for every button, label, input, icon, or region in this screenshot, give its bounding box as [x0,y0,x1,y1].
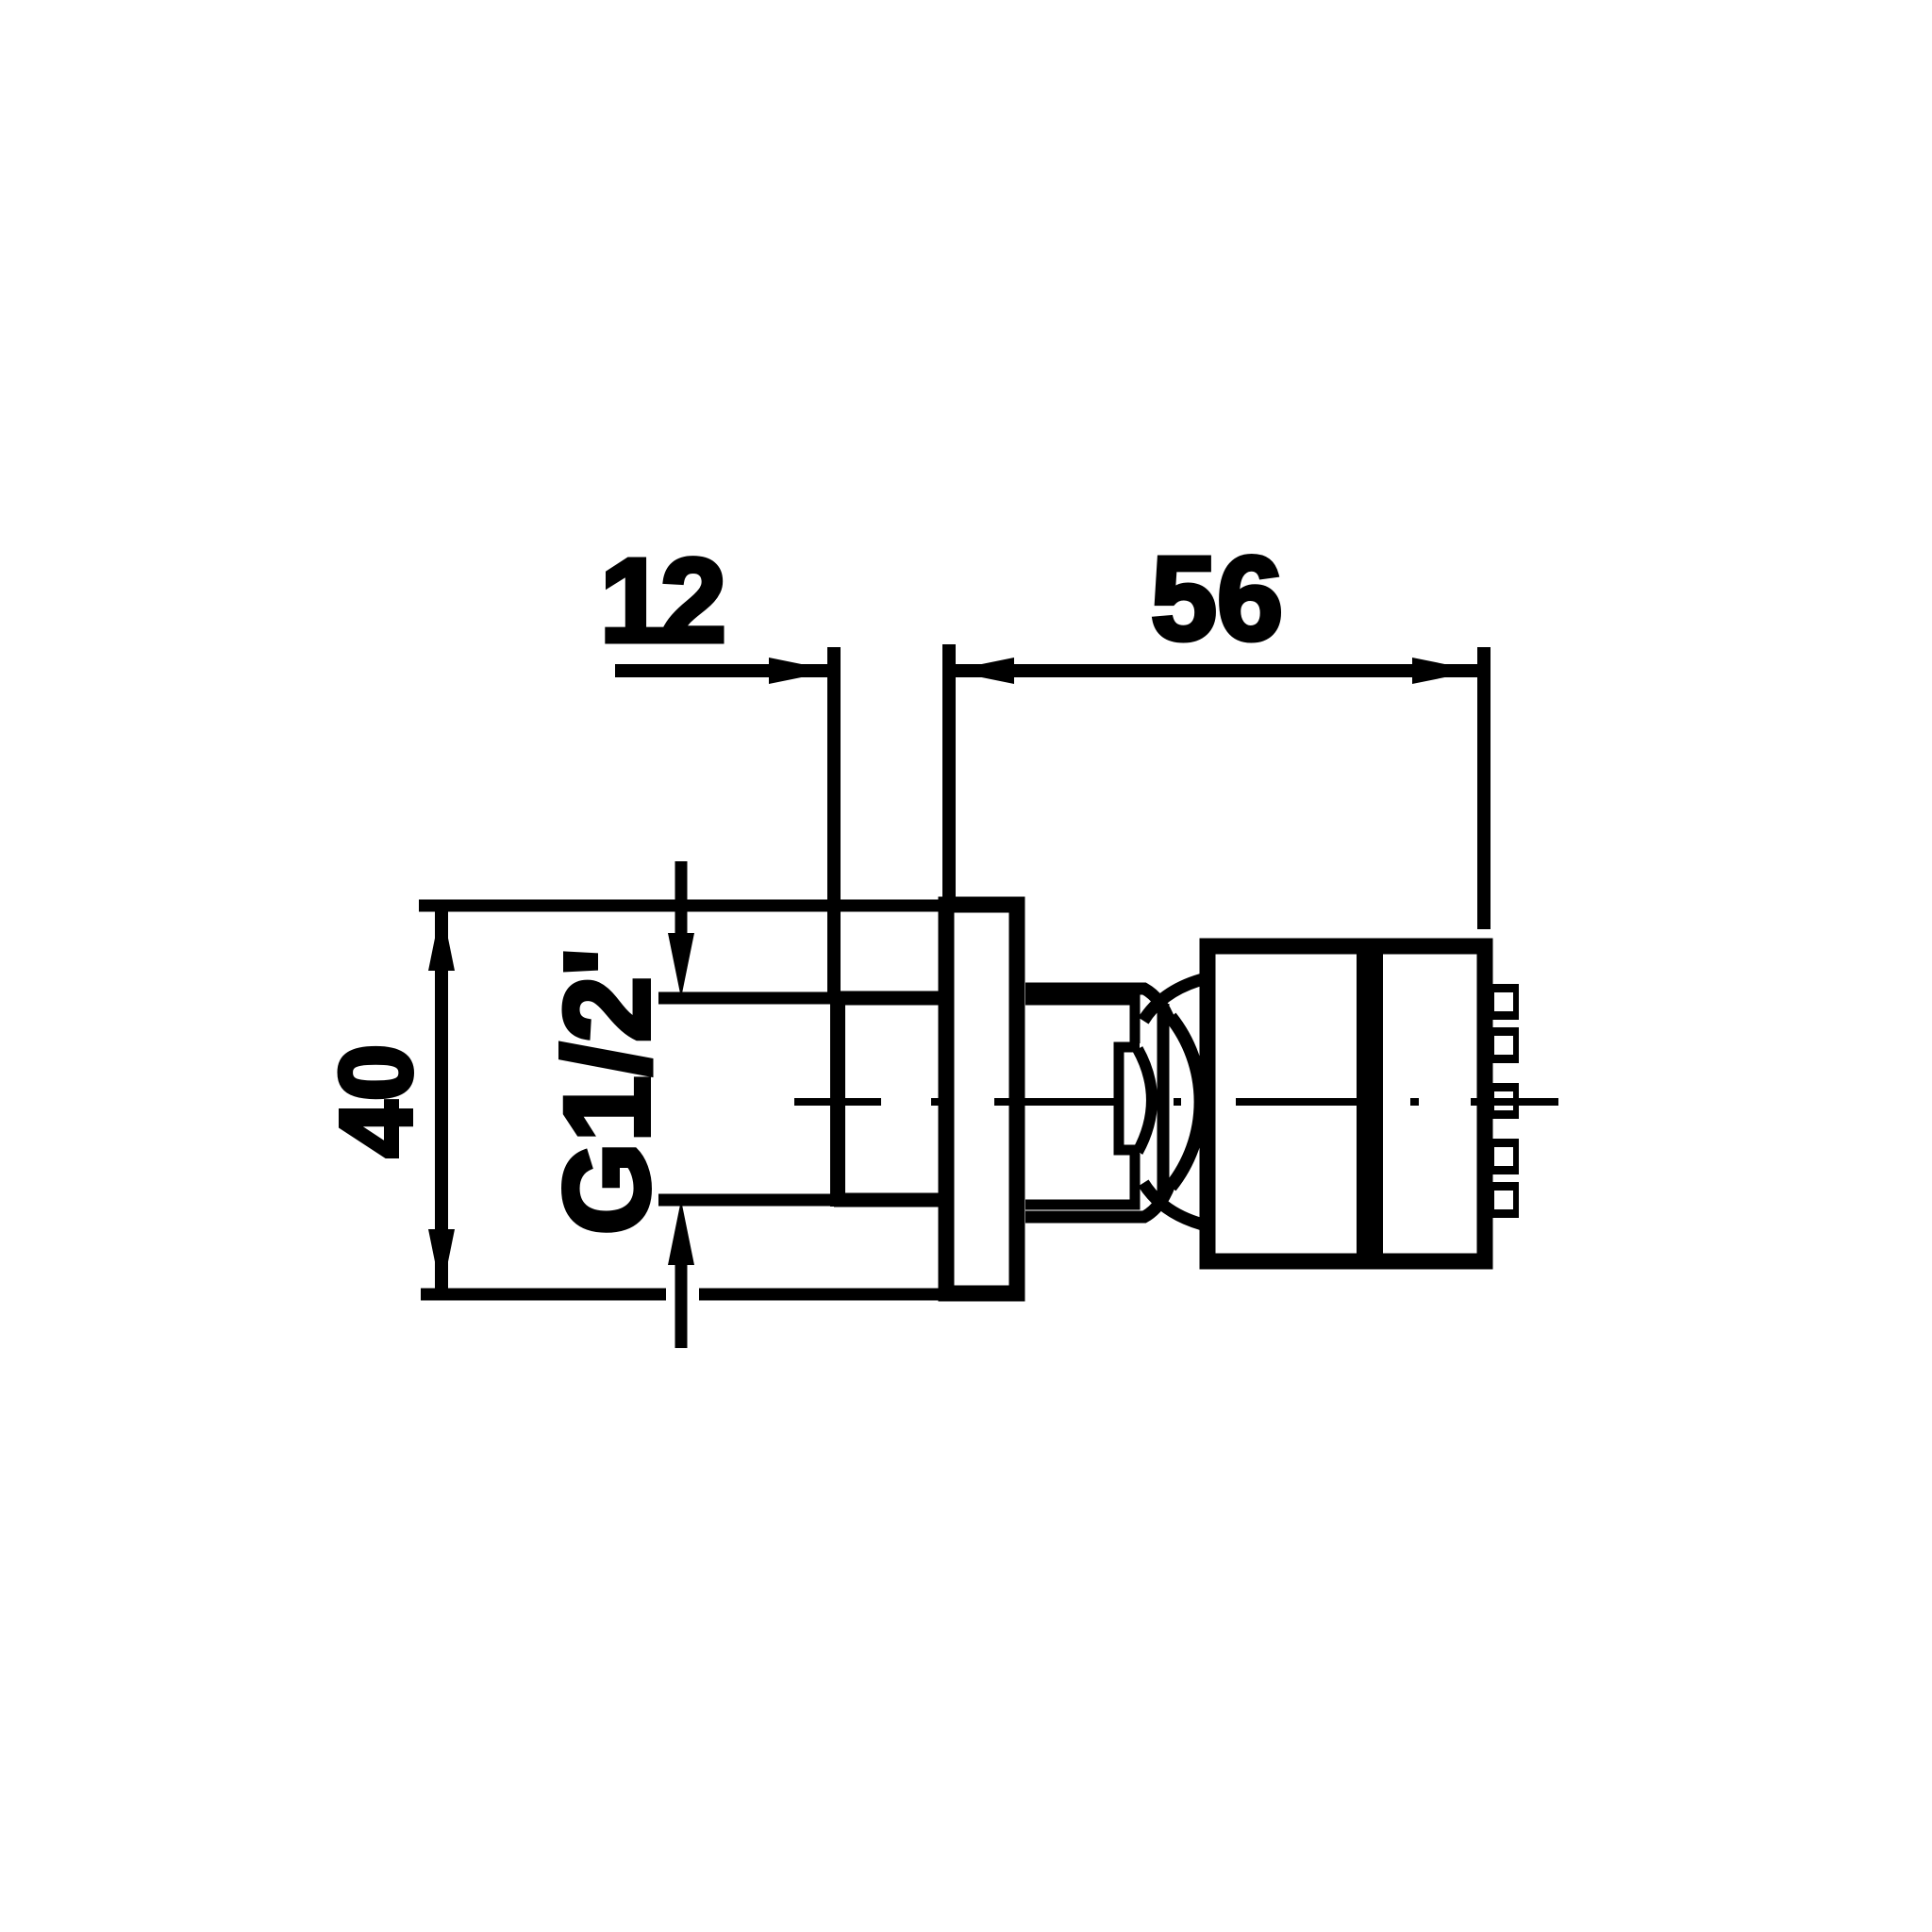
socket flare top [1143,979,1203,1021]
neck outer bottom [1025,1184,1170,1217]
threaded pipe G1/2 bottom edge [834,1193,946,1207]
G1/2 pointer bottom [658,1200,834,1348]
ball silhouette large arc [1171,1017,1201,1187]
spray head body [1207,946,1485,1261]
nozzle tooth 1 [1485,984,1519,1020]
neck inner top [1025,1000,1135,1043]
svg-text:12: 12 [600,534,723,667]
dimension 56 line [949,658,1477,684]
extension line pipe left end [827,647,841,1000]
centerline dash through head [1236,1098,1358,1106]
ball silhouette small arc [1138,1049,1152,1152]
neck outer top [1025,989,1170,1022]
socket waist bar [1158,1004,1170,1200]
threaded pipe G1/2 top edge [834,991,946,1006]
nozzle tooth 4 [1485,1139,1519,1174]
centerline dash through pipe [794,1098,881,1106]
centerline dash at nozzles [1471,1098,1558,1106]
svg-text:56: 56 [1151,532,1283,665]
centerline dash through neck [994,1098,1114,1106]
extension line wall face [942,644,956,901]
ball joint collar [1119,1047,1140,1150]
spray head divider [1357,946,1383,1261]
svg-text:G1/2': G1/2' [541,948,675,1236]
pipe left edge [830,991,845,1207]
dimension 12 line [615,658,834,684]
nozzle tooth 5 [1485,1182,1519,1218]
centerline dot in head [1410,1098,1419,1106]
dimension 40 extension top [419,900,939,912]
socket flare bottom [1143,1183,1203,1224]
dimension 40 extension bottom [421,1289,939,1301]
centerline dot before flange [931,1098,941,1106]
neck inner bottom [1025,1154,1135,1205]
nozzle tooth 3 [1485,1083,1519,1119]
G1/2 pointer top [658,861,834,998]
extension line head right [1477,647,1491,929]
nozzle tooth 2 [1485,1027,1519,1063]
dimension 40 line with arrows [428,906,455,1294]
centerline dot in socket [1174,1098,1181,1106]
wall flange [946,905,1017,1293]
svg-text:40: 40 [319,1044,433,1158]
